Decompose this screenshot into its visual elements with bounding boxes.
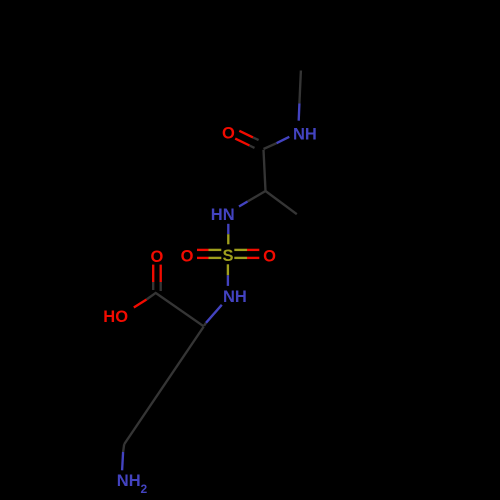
bond C2-N2 (alpha C to sulfamide HN) <box>239 191 266 207</box>
svg-text:O: O <box>181 248 194 266</box>
svg-text:HO: HO <box>103 308 128 326</box>
svg-text:S: S <box>222 247 233 265</box>
bond N3-C3 (sulfamide NH to lysine alpha C) <box>204 305 222 326</box>
svg-text:NH: NH <box>223 288 247 306</box>
bond C1-C2 (carbonyl C to alpha C) <box>264 150 266 191</box>
svg-text:2: 2 <box>141 482 148 496</box>
bond C4=O4 (carboxyl double bond) <box>153 265 161 291</box>
svg-text:NH: NH <box>293 126 317 144</box>
bond S1=O3 (right sulfonyl double bond) <box>234 250 259 258</box>
bond N2-S1 <box>227 224 229 245</box>
bond CH3-N1 (methyl stub) <box>299 71 301 121</box>
svg-text:O: O <box>150 248 163 266</box>
bond S1=O2 (left sulfonyl double bond) <box>197 250 221 258</box>
bond C4-O5 (C to hydroxyl O) <box>134 292 157 307</box>
bond C5-N4 (to amine) <box>122 444 124 470</box>
svg-text:O: O <box>263 248 276 266</box>
bond C3-C5 (lysine side chain, long) <box>124 327 204 445</box>
bond C2-CH3 (alanine methyl) <box>266 191 297 214</box>
svg-text:HN: HN <box>211 206 235 224</box>
svg-text:NH: NH <box>117 472 141 490</box>
bond C1=O1 (amide carbonyl double bond) <box>235 131 258 148</box>
svg-text:O: O <box>222 124 235 142</box>
bond N1-C1 (amide N to carbonyl C) <box>264 137 290 149</box>
bond S1-N3 <box>227 264 229 286</box>
bond C3-C4 (alpha C to carboxyl C) <box>156 293 204 326</box>
